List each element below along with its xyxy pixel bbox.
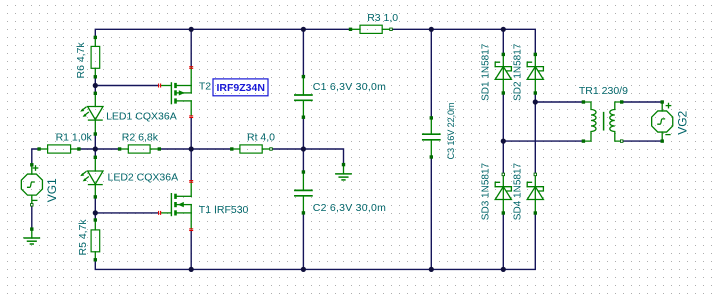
pin SD2 bottom [534,91,537,94]
diode SD2 1N5817 [527,54,543,93]
wire C2 bottom to bottom rail [302,213,304,270]
pin SD1 top [502,53,505,56]
svg-text:SD3 1N5817: SD3 1N5817 [481,163,492,221]
pin C3 bottom [430,155,433,158]
capacitor C2 [295,172,312,213]
svg-text:VG2: VG2 [676,110,690,134]
pin marker T2 drain bottom [189,116,193,118]
svg-text:T2: T2 [199,80,211,92]
node C top rail / C3 [429,27,434,32]
node K bottom rail / C2 [301,267,306,272]
svg-text:SD2 1N5817: SD2 1N5817 [513,43,524,101]
pin C3 top [430,116,433,119]
wire C1 top to top rail [302,29,304,76]
wire mid rail VG1 corner [32,149,39,165]
pin VG1 top [30,163,33,166]
node E mid rail / LED column [93,146,98,151]
node H R6 LED1 T2 gate [93,83,98,88]
wire VG1 bottom to ground [31,205,33,229]
wire T2 drain to top rail [190,29,192,66]
wire SD2 bottom to SD4 top [534,93,536,174]
wire C3 top to top rail [430,29,432,118]
wire T1 gate net [95,212,158,214]
wire top rail left segment [95,29,350,37]
resistor Rt [232,145,271,153]
pin VG2 bottom [661,139,664,142]
svg-text:SD1 1N5817: SD1 1N5817 [481,43,492,101]
transformer TR1 primary winding [583,102,596,141]
pin marker T2 gate [159,84,161,88]
pin Rt left [230,147,233,150]
pin ground mid [342,163,345,166]
pin C2 top [302,170,305,173]
pin R6 bottom [94,75,97,78]
wire C3 bottom to bottom rail [430,157,432,269]
svg-text:R2 6,8k: R2 6,8k [122,131,159,143]
transformer TR1 secondary winding [610,102,622,141]
pin marker T2 source top [189,67,193,69]
capacitor C1 [295,77,312,118]
diode SD1 1N5817 [495,54,511,93]
wire T1 drain from mid rail [190,149,192,181]
value box IRF9Z34N [213,79,268,96]
node L bottom rail / C3 [429,267,434,272]
pin marker T1 drain top [189,181,193,183]
transistor T1 [162,182,192,229]
node A top rail / T2 source [189,27,194,32]
wire LED1 bottom to mid rail [94,134,96,157]
wire top rail right segment [391,29,535,54]
svg-text:T1 IRF530: T1 IRF530 [199,204,249,216]
pin LED1 bottom [94,132,97,135]
ground at mid rail [336,165,351,180]
svg-text:SD4 1N5817: SD4 1N5817 [513,163,524,221]
node I LED2 R5 T1 gate [93,210,98,215]
svg-text:C3 16V 22,0m: C3 16V 22,0m [446,102,456,159]
svg-text:TR1 230/9: TR1 230/9 [579,85,628,97]
wire C1 bottom to mid rail [302,117,304,172]
voltage generator VG2 [652,102,673,141]
wire mid rail R1 to R2 [79,148,120,150]
capacitor C3 [423,118,440,157]
resistor R2 [120,145,160,153]
wire T1 source to bottom rail [190,231,192,270]
svg-text:IRF9Z34N: IRF9Z34N [217,82,265,94]
wire mid rail Rt to ground corner [271,149,344,165]
wire TR1 secondary top to VG2 [622,101,663,103]
pin TR1 primary bottom [582,139,585,142]
wire TR1 secondary bottom to VG2 [622,140,663,142]
svg-text:R1 1,0k: R1 1,0k [56,131,93,143]
pin ground VG1 [30,227,33,230]
resistor R1 [39,145,79,153]
wire SD2 node to TR1 primary top [535,101,583,103]
pin TR1 secondary bottom open [620,139,623,142]
pin SD3 top open [502,173,505,176]
LED2 CQX36A [80,157,103,197]
wire SD1 bottom to SD3 top [502,93,504,174]
node B top rail / C1 [301,27,306,32]
svg-text:VG1: VG1 [45,178,59,202]
pin SD2 top [534,53,537,56]
pin SD3 bottom [502,211,505,214]
resistor R5 [91,220,100,260]
svg-text:R3 1,0: R3 1,0 [367,12,398,24]
pin SD4 bottom [534,211,537,214]
pin SD4 top open [534,173,537,176]
pin LED2 top [94,156,97,159]
pin R5 top [94,218,97,221]
pin R3 right open [389,28,392,31]
pin marker T1 gate [159,211,161,215]
node G mid rail / C column [301,146,306,151]
pin LED2 bottom [94,195,97,198]
svg-text:LED1 CQX36A: LED1 CQX36A [106,110,177,122]
node M bottom rail / SD3 [501,267,506,272]
pin R6 top [94,36,97,39]
svg-text:R6 4,7k: R6 4,7k [75,42,87,79]
pin R1 right [77,147,80,150]
wire SD1 node to TR1 primary bottom [503,140,583,142]
pin Rt right open [269,147,272,150]
pin C1 bottom [302,116,305,119]
svg-text:C1 6,3V 30,0m: C1 6,3V 30,0m [313,81,386,93]
pin C1 top [302,75,305,78]
node J bottom rail / T1 [189,267,194,272]
svg-text:R5 4,7k: R5 4,7k [77,219,89,256]
wire SD3 bottom to bottom rail [502,213,504,269]
pin marker T1 source bottom [189,229,193,231]
node N SD2 to TR1 [533,99,538,104]
pin R2 left [118,147,121,150]
pin TR1 primary top [582,100,585,103]
wire mid rail R2 to Rt [159,148,232,150]
svg-text:LED2 CQX36A: LED2 CQX36A [108,171,179,183]
pin R5 bottom [94,258,97,261]
pin VG1 bottom open [30,203,33,206]
pin SD1 bottom [502,91,505,94]
wire T2 gate net [95,85,158,87]
diode SD4 1N5817 [527,174,543,213]
pin LED1 top [94,92,97,95]
node F mid rail / T column [189,146,194,151]
node O SD1 to TR1 [501,139,506,144]
node D top rail / SD1 [501,27,506,32]
svg-text:Rt 4,0: Rt 4,0 [247,131,275,143]
svg-text:C2 6,3V 30,0m: C2 6,3V 30,0m [313,202,386,214]
wire SD1 top to top rail [502,29,504,54]
pin C2 bottom [302,211,305,214]
pin R3 left [349,28,352,31]
wire bottom rail [95,213,535,269]
pin VG2 top [661,100,664,103]
wire LED2 bottom to R5 top [94,197,96,220]
diode SD3 1N5817 [495,174,511,213]
wire R6 bottom to LED1 top [94,77,96,94]
voltage generator VG1 [21,165,42,205]
LED1 CQX36A [80,93,103,134]
pin R1 left [37,147,40,150]
transistor T2 [162,68,192,116]
pin R2 right [158,147,161,150]
pin TR1 secondary top [620,100,623,103]
ground at VG1 [24,229,39,244]
wire T2 drain to mid rail [190,118,192,149]
transformer TR1 core [603,113,605,130]
resistor R3 [351,25,392,33]
resistor R6 [91,37,100,76]
